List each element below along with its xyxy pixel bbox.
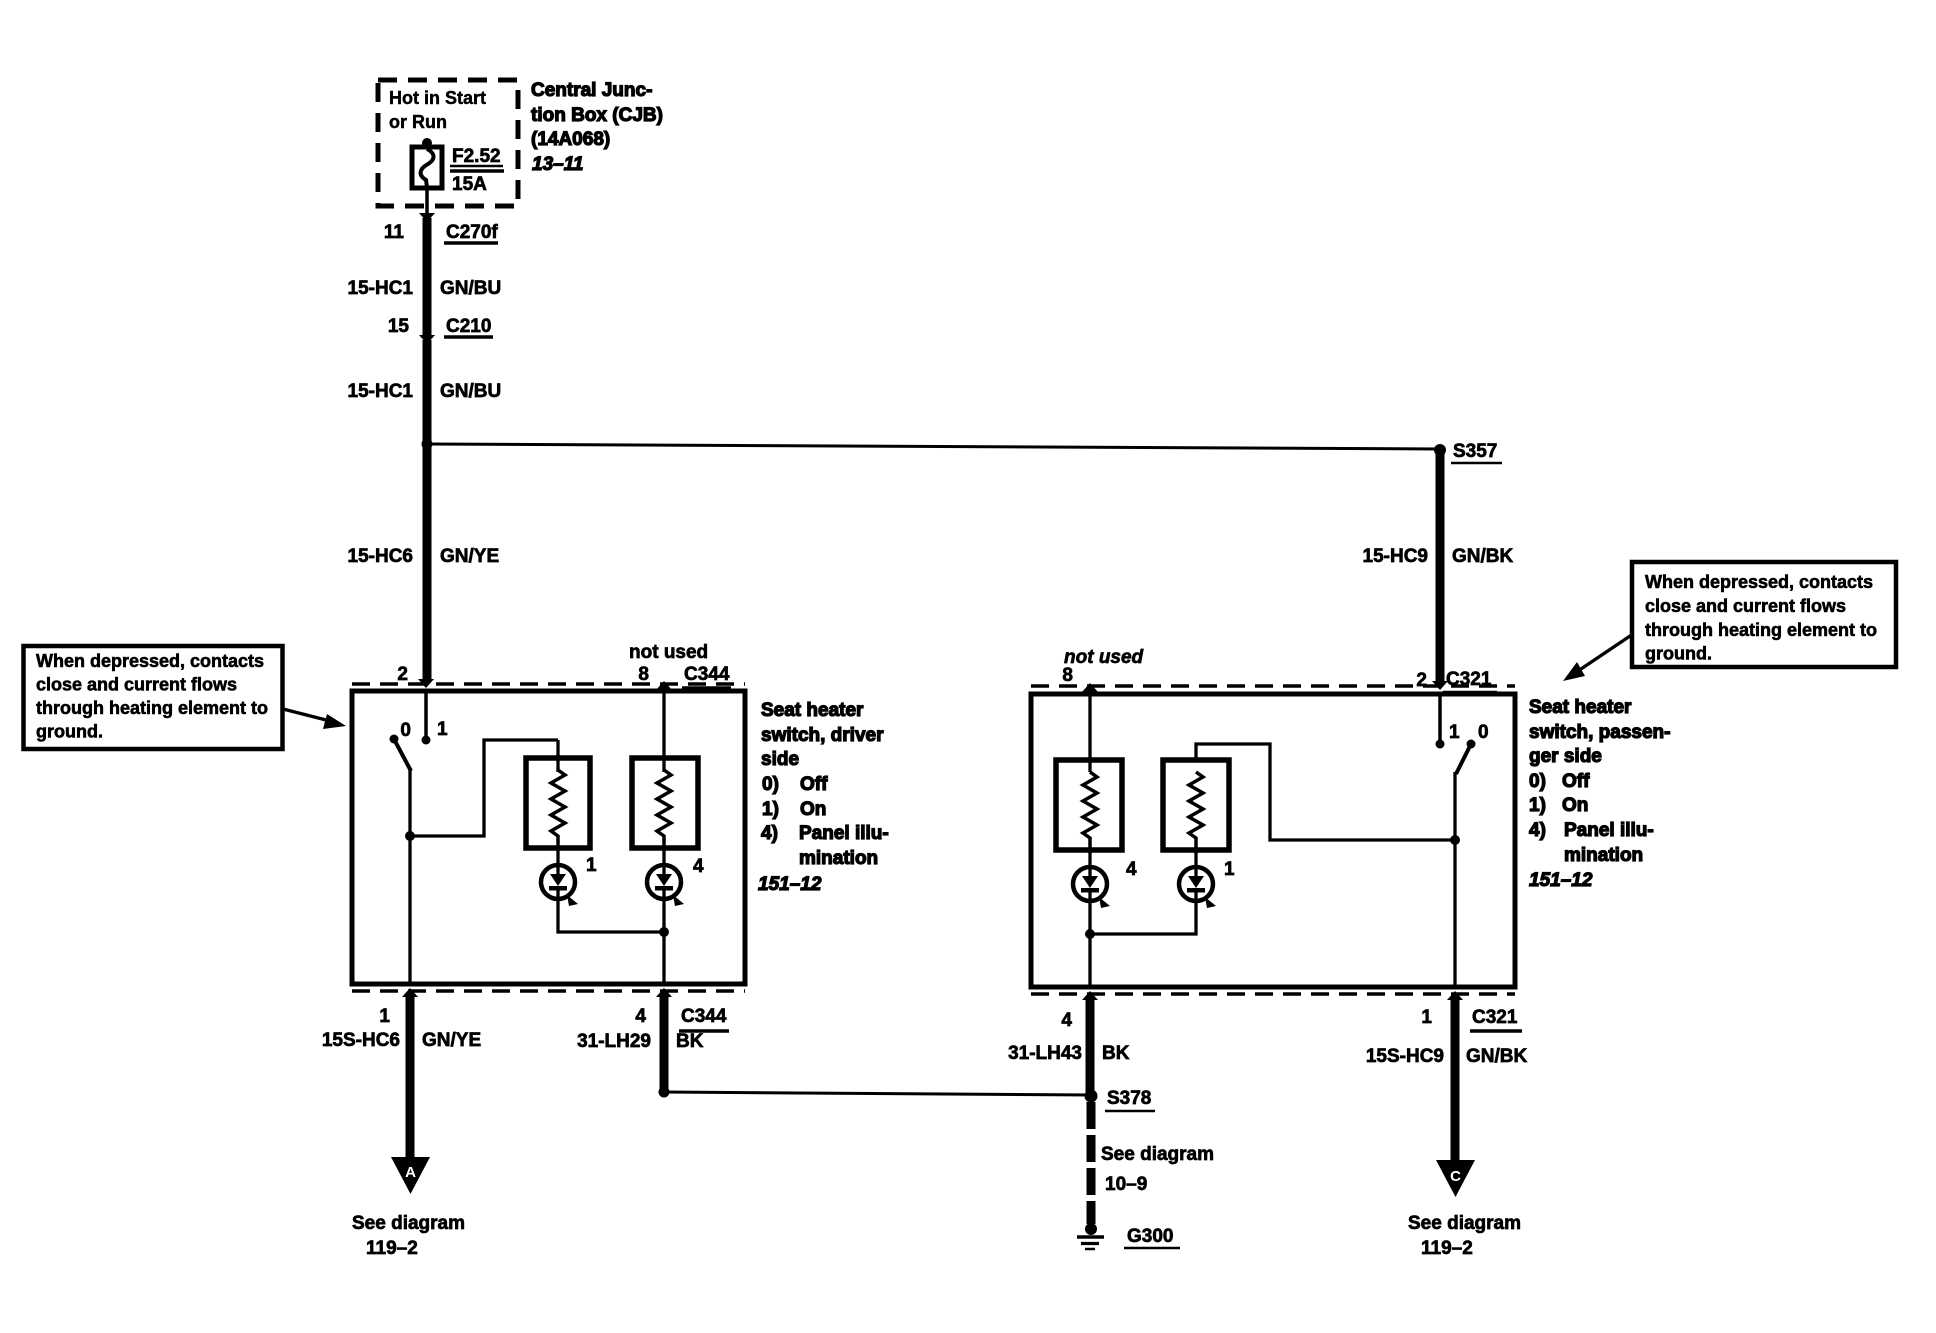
- svg-text:10–9: 10–9: [1105, 1174, 1147, 1195]
- svg-text:0): 0): [1529, 771, 1546, 792]
- junction dot in switch: [405, 831, 415, 841]
- connector arrow pin4 C344 (up): [656, 988, 672, 997]
- seat heater switch driver side box: [352, 691, 745, 984]
- svg-text:Seat heater: Seat heater: [1529, 697, 1632, 718]
- indicator lamp 1: [541, 865, 575, 899]
- svg-text:1): 1): [762, 799, 779, 820]
- wire lamp 1 to junction (passenger): [1090, 901, 1196, 934]
- svg-text:31-LH43: 31-LH43: [1008, 1043, 1082, 1064]
- dashed connector line C321 top: [1031, 684, 1515, 688]
- svg-text:11: 11: [384, 222, 405, 243]
- heating element box 1 (passenger): [1163, 760, 1229, 850]
- svg-text:Off: Off: [1562, 771, 1590, 792]
- note arrow left: [283, 709, 334, 722]
- note arrow right: [1575, 634, 1633, 673]
- svg-text:31-LH29: 31-LH29: [577, 1031, 651, 1052]
- svg-text:A: A: [405, 1164, 416, 1181]
- svg-text:15A: 15A: [452, 174, 487, 195]
- svg-text:C210: C210: [446, 316, 491, 337]
- wire 15-HC9 GN/BK (S357 down to passenger switch pin 2): [1436, 452, 1445, 682]
- note box right: [1632, 562, 1896, 667]
- wire 15-HC6 GN/YE (S357 down to driver switch pin 2): [423, 444, 432, 681]
- svg-text:2: 2: [1416, 670, 1427, 691]
- switch lever pivot dot: [390, 735, 399, 744]
- wire lever to junction: [408, 769, 411, 836]
- svg-text:Seat heater: Seat heater: [761, 700, 864, 721]
- svg-text:C321: C321: [1472, 1007, 1518, 1028]
- svg-text:GN/BK: GN/BK: [1466, 1046, 1528, 1067]
- resistor element 1: [551, 770, 565, 848]
- svg-text:15-HC6: 15-HC6: [348, 546, 413, 567]
- off-page arrow C: [1436, 1160, 1475, 1197]
- svg-text:15S-HC9: 15S-HC9: [1366, 1046, 1444, 1067]
- svg-text:ground.: ground.: [1645, 644, 1712, 664]
- wire heater branch to switch junction (passenger): [1196, 744, 1455, 840]
- connector arrow pin1 C321 (up): [1447, 991, 1463, 1000]
- fuse F2.52 body: [412, 147, 442, 188]
- wire lamp 4 to pin 4 (passenger): [1088, 901, 1091, 987]
- svg-text:See diagram: See diagram: [352, 1213, 465, 1234]
- switch lever: [395, 741, 411, 771]
- wire pin 8 into element 4: [1088, 692, 1091, 772]
- wire into heating element 1: [556, 740, 559, 772]
- off-page arrow A: [391, 1157, 430, 1194]
- wire element 1 to lamp 1: [556, 848, 559, 866]
- wire pin2 inside box: [424, 691, 428, 740]
- switch contact 1 dot: [422, 736, 431, 745]
- wire pin2 inside box (passenger): [1438, 694, 1442, 744]
- switch lever pivot dot (passenger): [1467, 740, 1476, 749]
- wire switch junction to pin 1 (passenger): [1453, 840, 1456, 987]
- svg-text:mination: mination: [1564, 845, 1643, 866]
- svg-text:4: 4: [1126, 859, 1137, 880]
- svg-text:GN/BU: GN/BU: [440, 381, 501, 402]
- wire 15S-HC9 GN/BK: [1451, 996, 1460, 1160]
- connector arrow C270f: [419, 213, 435, 222]
- splice S357 dot: [1434, 444, 1446, 456]
- svg-text:8: 8: [1062, 665, 1073, 686]
- wire switch junction to pin 1: [408, 836, 411, 984]
- svg-text:On: On: [800, 799, 826, 820]
- connector arrow pin2 C344: [418, 679, 434, 688]
- svg-text:BK: BK: [1102, 1043, 1130, 1064]
- seat heater switch passenger side box: [1031, 694, 1515, 987]
- wire fuse to connector C270f: [425, 188, 429, 213]
- dashed connector line C321 bottom: [1031, 992, 1515, 996]
- svg-text:or Run: or Run: [389, 112, 447, 132]
- svg-text:15-HC9: 15-HC9: [1363, 546, 1428, 567]
- wire 15S-HC6 GN/YE: [406, 993, 415, 1158]
- switch contact 1 dot (passenger): [1436, 740, 1445, 749]
- svg-text:not used: not used: [629, 642, 708, 663]
- svg-text:1: 1: [1421, 1007, 1432, 1028]
- resistor element 4: [657, 770, 671, 848]
- svg-text:1: 1: [586, 855, 597, 876]
- svg-text:15: 15: [388, 316, 410, 337]
- svg-text:close and current flows: close and current flows: [1645, 596, 1846, 616]
- svg-text:close and current flows: close and current flows: [36, 675, 237, 695]
- svg-text:S357: S357: [1453, 441, 1497, 462]
- fuse element curve: [421, 149, 434, 187]
- dashed wire S378 to ground: [1087, 1102, 1096, 1224]
- indicator lamp 1 (passenger): [1179, 867, 1213, 901]
- svg-text:See diagram: See diagram: [1408, 1213, 1521, 1234]
- svg-text:not used: not used: [1064, 647, 1144, 668]
- svg-text:0: 0: [1478, 722, 1489, 743]
- svg-text:Central Junc-: Central Junc-: [531, 80, 652, 101]
- junction dot lamps (passenger): [1085, 929, 1095, 939]
- fuse F2.52 stub dot: [422, 138, 432, 148]
- svg-text:4: 4: [635, 1006, 646, 1027]
- svg-text:C270f: C270f: [446, 222, 498, 243]
- svg-text:1: 1: [1224, 859, 1235, 880]
- resistor element 4 (passenger): [1083, 772, 1097, 850]
- svg-text:4: 4: [1061, 1010, 1072, 1031]
- CJB dashed box: [378, 80, 518, 206]
- svg-text:through heating element to: through heating element to: [36, 698, 268, 718]
- svg-text:Panel illu-: Panel illu-: [799, 823, 889, 844]
- resistor element 1 (passenger): [1189, 772, 1203, 850]
- svg-text:See diagram: See diagram: [1101, 1144, 1214, 1165]
- wire lamp 1 to junction: [558, 899, 664, 932]
- svg-text:2: 2: [397, 664, 408, 685]
- svg-text:8: 8: [638, 664, 649, 685]
- svg-text:GN/YE: GN/YE: [422, 1030, 481, 1051]
- svg-text:1: 1: [437, 719, 448, 740]
- svg-text:switch, passen-: switch, passen-: [1529, 722, 1671, 743]
- connector arrow C210: [419, 335, 435, 344]
- svg-text:151–12: 151–12: [758, 874, 822, 895]
- svg-text:When depressed, contacts: When depressed, contacts: [1645, 572, 1873, 592]
- connector arrow pin8 C321 (up): [1082, 683, 1098, 692]
- svg-text:switch, driver: switch, driver: [761, 725, 884, 746]
- svg-text:15-HC1: 15-HC1: [348, 278, 414, 299]
- wire 15-HC1 GN/BU (C270f to C210): [423, 218, 432, 335]
- splice S378 dot: [1085, 1090, 1098, 1103]
- svg-text:through heating element to: through heating element to: [1645, 620, 1877, 640]
- svg-text:(14A068): (14A068): [531, 129, 610, 150]
- svg-text:On: On: [1562, 795, 1588, 816]
- junction dot at wire end: [659, 1087, 670, 1098]
- svg-text:151–12: 151–12: [1529, 870, 1593, 891]
- wire lever to junction (passenger): [1453, 772, 1456, 840]
- dashed connector line C344 top: [352, 682, 745, 686]
- svg-text:15S-HC6: 15S-HC6: [322, 1030, 400, 1051]
- svg-text:GN/YE: GN/YE: [440, 546, 499, 567]
- wire 15-HC1 GN/BU (C210 to splice S357): [423, 340, 432, 446]
- wire to S357 (horizontal): [427, 443, 1440, 451]
- svg-text:mination: mination: [799, 848, 878, 869]
- wire element to lamp 4 (passenger): [1088, 850, 1091, 868]
- svg-text:0): 0): [762, 774, 779, 795]
- wire junction to heater branch: [410, 740, 558, 836]
- svg-text:Panel illu-: Panel illu-: [1564, 820, 1654, 841]
- wire element to lamp 1 (passenger): [1194, 850, 1197, 868]
- svg-text:1): 1): [1529, 795, 1546, 816]
- svg-text:G300: G300: [1127, 1226, 1173, 1247]
- connector arrow pin1 C344 (up): [402, 988, 418, 997]
- svg-text:4): 4): [761, 823, 778, 844]
- svg-text:C344: C344: [684, 664, 730, 685]
- svg-text:F2.52: F2.52: [452, 146, 501, 167]
- svg-text:tion Box (CJB): tion Box (CJB): [531, 105, 663, 126]
- wire element 4 to lamp 4: [662, 848, 665, 866]
- junction dot at wire branch: [422, 439, 433, 450]
- indicator lamp 4 (passenger): [1073, 867, 1107, 901]
- svg-text:C: C: [1450, 1168, 1461, 1185]
- heating element box 4: [632, 758, 698, 848]
- wire 31-LH43 BK: [1086, 996, 1095, 1092]
- heating element box 1: [526, 758, 590, 848]
- svg-text:ground.: ground.: [36, 722, 103, 742]
- svg-text:C344: C344: [681, 1006, 727, 1027]
- junction dot lamps: [659, 927, 669, 937]
- svg-text:15-HC1: 15-HC1: [348, 381, 414, 402]
- svg-text:BK: BK: [676, 1031, 704, 1052]
- svg-text:0: 0: [400, 720, 411, 741]
- heating element box 4 (passenger): [1056, 760, 1122, 850]
- svg-text:ger side: ger side: [1529, 746, 1602, 767]
- switch lever (passenger): [1456, 746, 1470, 774]
- svg-text:Off: Off: [800, 774, 828, 795]
- svg-text:GN/BU: GN/BU: [440, 278, 501, 299]
- svg-text:S378: S378: [1107, 1088, 1151, 1109]
- wire pin 8 into element 4: [662, 690, 665, 772]
- wire 31-LH29 BK: [660, 993, 669, 1092]
- wire to splice S378 (horizontal): [664, 1091, 1091, 1097]
- connector arrow pin8 C344 (up): [656, 681, 672, 690]
- wire lamp 4 to pin 4: [662, 899, 665, 984]
- svg-text:1: 1: [379, 1006, 390, 1027]
- svg-text:side: side: [761, 749, 799, 770]
- svg-text:When depressed, contacts: When depressed, contacts: [36, 651, 264, 671]
- svg-text:GN/BK: GN/BK: [1452, 546, 1514, 567]
- dashed connector line C344 bottom: [352, 989, 745, 993]
- junction dot in switch (passenger): [1450, 835, 1460, 845]
- svg-text:Hot in Start: Hot in Start: [389, 88, 486, 108]
- svg-text:119–2: 119–2: [1421, 1238, 1473, 1259]
- svg-text:13–11: 13–11: [532, 154, 583, 175]
- svg-text:119–2: 119–2: [366, 1238, 418, 1259]
- ground G300: [1085, 1223, 1097, 1235]
- svg-text:1: 1: [1449, 722, 1460, 743]
- svg-text:4): 4): [1529, 820, 1546, 841]
- note box left: [24, 646, 283, 749]
- indicator lamp 4: [647, 865, 681, 899]
- connector arrow pin4 C321 (up): [1082, 991, 1098, 1000]
- connector arrow pin2 C321: [1432, 681, 1448, 690]
- svg-text:4: 4: [693, 856, 704, 877]
